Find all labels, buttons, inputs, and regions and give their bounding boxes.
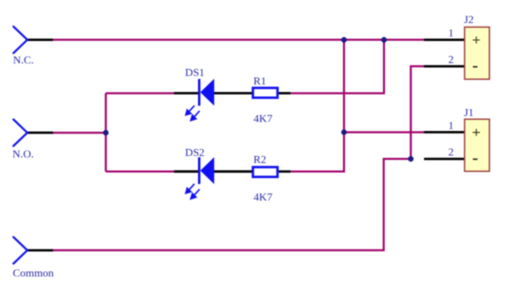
- svg-text:2: 2: [448, 147, 454, 159]
- svg-text:DS1: DS1: [185, 67, 205, 79]
- svg-text:N.C.: N.C.: [13, 55, 34, 67]
- svg-text:Common: Common: [13, 267, 54, 279]
- svg-text:N.O.: N.O.: [12, 149, 34, 161]
- svg-text:4K7: 4K7: [254, 113, 273, 125]
- svg-text:2: 2: [448, 54, 454, 66]
- svg-text:1: 1: [448, 28, 454, 40]
- svg-text:J2: J2: [464, 14, 474, 26]
- svg-text:J1: J1: [464, 107, 474, 119]
- svg-text:4K7: 4K7: [254, 191, 273, 203]
- svg-text:DS2: DS2: [185, 147, 205, 159]
- svg-text:1: 1: [448, 120, 454, 132]
- svg-text:R2: R2: [253, 154, 266, 166]
- svg-text:R1: R1: [253, 76, 266, 88]
